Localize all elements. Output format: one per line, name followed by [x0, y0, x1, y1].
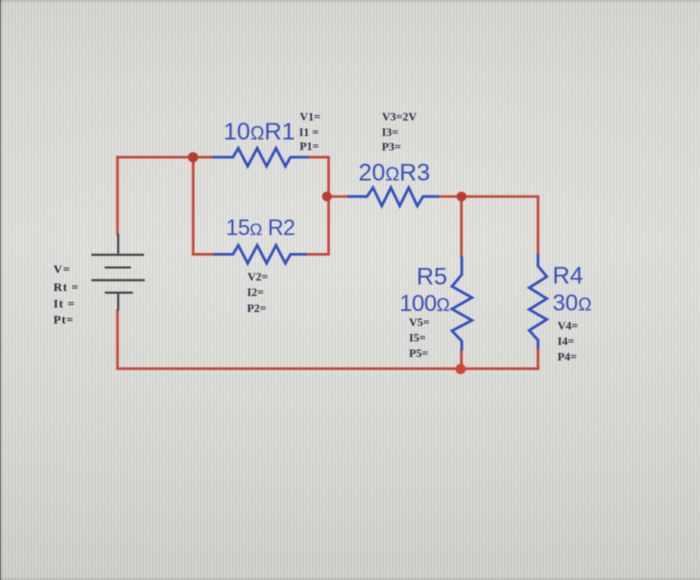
svg-text:I3=: I3= — [382, 127, 399, 139]
svg-text:30Ω: 30Ω — [553, 290, 592, 316]
svg-text:I1 =: I1 = — [299, 127, 319, 139]
svg-text:R5: R5 — [417, 264, 448, 291]
svg-text:P4=: P4= — [558, 352, 577, 364]
svg-text:I4=: I4= — [558, 336, 575, 348]
svg-text:20ΩR3: 20ΩR3 — [359, 160, 431, 187]
svg-text:V4=: V4= — [558, 321, 579, 333]
svg-text:V2=: V2= — [248, 271, 269, 283]
svg-text:10ΩR1: 10ΩR1 — [224, 119, 296, 146]
svg-text:P5=: P5= — [409, 348, 428, 360]
svg-text:V5=: V5= — [409, 317, 430, 329]
svg-text:I5=: I5= — [409, 333, 426, 345]
svg-text:It =: It = — [54, 297, 76, 311]
svg-text:V1=: V1= — [300, 111, 321, 123]
svg-text:P3=: P3= — [382, 141, 401, 153]
svg-text:V=: V= — [54, 262, 71, 276]
svg-text:V3=2V: V3=2V — [382, 111, 417, 123]
svg-text:P2=: P2= — [247, 303, 266, 315]
svg-text:15Ω R2: 15Ω R2 — [226, 215, 295, 240]
svg-text:P1=: P1= — [300, 141, 319, 153]
svg-text:Pt=: Pt= — [54, 313, 75, 327]
svg-text:Rt =: Rt = — [54, 280, 80, 294]
svg-text:I2=: I2= — [247, 287, 264, 299]
svg-text:R4: R4 — [553, 263, 584, 290]
svg-text:100Ω: 100Ω — [400, 290, 450, 316]
